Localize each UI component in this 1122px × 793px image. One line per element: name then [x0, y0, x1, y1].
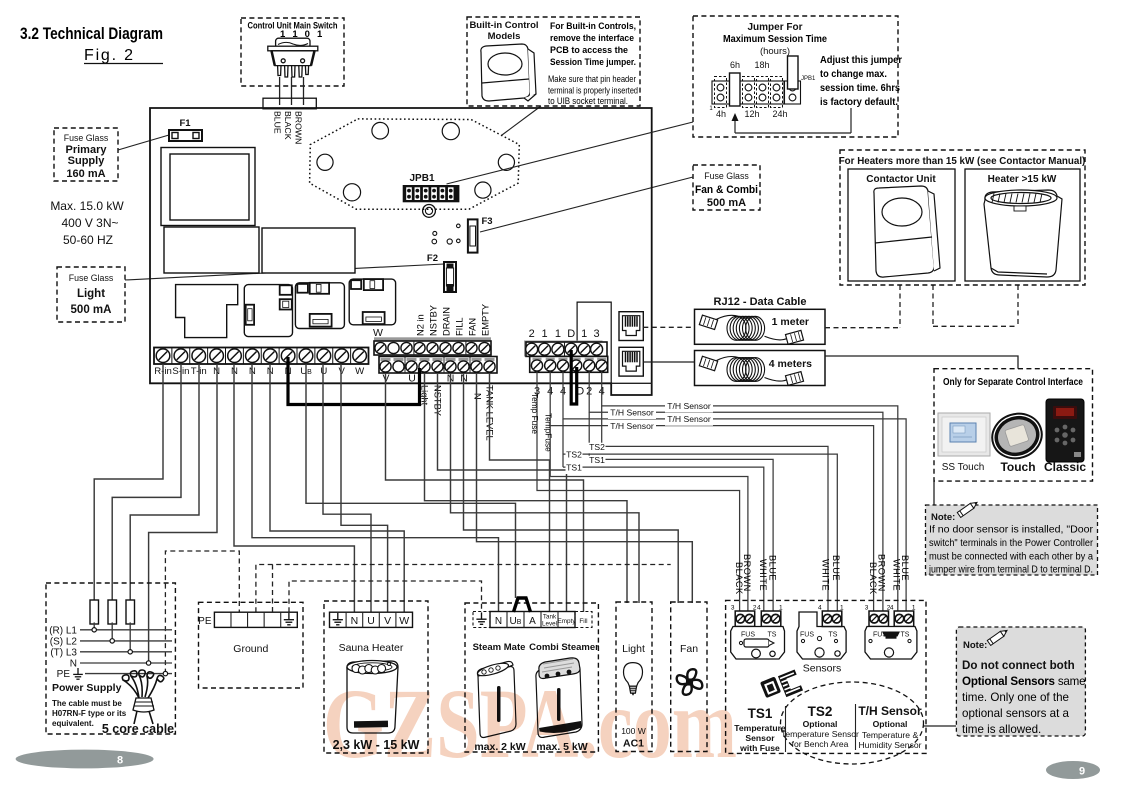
svg-text:F2: F2 — [427, 253, 438, 264]
svg-text:V: V — [384, 615, 391, 627]
svg-text:Temperature &: Temperature & — [862, 730, 919, 740]
svg-text:to UIB socket terminal.: to UIB socket terminal. — [548, 96, 628, 106]
wire X3-2 to TH sensor BROWN — [589, 372, 883, 614]
screw terminal X2-bot-2 — [394, 358, 404, 361]
label T/H Sensor run 3 — [665, 415, 713, 426]
screw terminal X3-bot-2 — [546, 358, 555, 361]
screw terminal X1-7 — [260, 348, 262, 365]
svg-text:Max. 15.0 kW: Max. 15.0 kW — [50, 199, 124, 213]
svg-text:optional sensors at a: optional sensors at a — [962, 707, 1070, 720]
leader line to F1 — [118, 135, 169, 150]
wire switch pin 3 — [303, 77, 305, 98]
TH sensor element — [882, 632, 900, 637]
svg-text:Sensor: Sensor — [745, 733, 775, 743]
svg-text:with Fuse: with Fuse — [739, 743, 780, 753]
svg-text:Models: Models — [488, 31, 521, 42]
svg-text:U: U — [408, 373, 416, 385]
optional sensors grouping ellipse — [781, 682, 924, 764]
svg-text:Session Time jumper.: Session Time jumper. — [550, 57, 636, 67]
wire N to light — [451, 373, 640, 603]
screw terminal X1-11 — [332, 348, 334, 365]
5 core cable drawing — [122, 670, 163, 724]
svg-text:TS1: TS1 — [589, 455, 605, 465]
screw terminal X1-2 — [171, 348, 173, 365]
screw terminal X2-top-1 — [375, 342, 386, 353]
wire switch pin 1 — [279, 77, 281, 98]
svg-text:BROWN: BROWN — [876, 554, 886, 592]
fuse F1 — [169, 130, 202, 141]
thick jumper wire N to U — [288, 357, 420, 405]
leader line to F2 — [125, 264, 444, 280]
page number 9 — [1046, 761, 1100, 779]
screw terminal X3-top-5 — [578, 343, 590, 355]
Heater more than 15kW box — [965, 169, 1080, 281]
svg-text:Heater >15 kW: Heater >15 kW — [988, 174, 1057, 185]
wire UB to steamer UB — [306, 364, 516, 598]
svg-text:Fan: Fan — [680, 643, 698, 655]
svg-text:(R) L1: (R) L1 — [49, 626, 77, 637]
wire PE dashed to ground — [165, 551, 239, 674]
svg-text:PCB to access the: PCB to access the — [550, 45, 628, 55]
wire X3-4 to TH sensor WHITE — [602, 372, 898, 614]
TS2 sensor body — [797, 612, 846, 659]
svg-text:The cable must be: The cable must be — [52, 699, 122, 708]
mains fuse L3 — [126, 600, 135, 624]
Touch control drawing — [986, 407, 1047, 464]
RJ12 jack J1 — [619, 312, 643, 341]
leader line from built-in box to PCB — [502, 106, 541, 135]
screw terminal X2-top-8 — [466, 342, 477, 353]
mounting hole — [343, 184, 360, 201]
sensor terminal pair TH-FUS — [869, 611, 889, 627]
sensor terminal pair TS1-FUS — [735, 611, 755, 627]
capacitor block C1 — [164, 227, 259, 273]
RJ12 jack J2 — [619, 347, 643, 376]
mains fuse L2 — [108, 600, 117, 624]
svg-text:T/H Sensor: T/H Sensor — [667, 414, 711, 424]
dashed PE rail to fan area — [256, 565, 671, 613]
svg-text:BLACK: BLACK — [283, 111, 293, 140]
cable plug right — [785, 372, 803, 386]
switch S1 Control Unit Main Switch box — [241, 18, 344, 86]
wire temp fuse to TS1 BROWN — [550, 477, 748, 614]
Light box — [616, 602, 652, 752]
note box optional sensors — [956, 627, 1085, 736]
dashed drop to ground cell — [272, 565, 274, 613]
svg-text:Do not connect both: Do not connect both — [962, 659, 1075, 672]
label T/H Sensor run 2 — [608, 408, 656, 419]
screw terminal X2-bot-5 — [433, 358, 443, 361]
screw terminal X3-top-4 — [565, 343, 577, 355]
svg-text:50-60 HZ: 50-60 HZ — [63, 233, 113, 247]
wire jack J2 to 4 meters cable — [643, 361, 694, 363]
svg-text:BLUE: BLUE — [831, 555, 841, 581]
svg-text:(S) L2: (S) L2 — [50, 637, 78, 648]
TS1 sensor body — [731, 627, 785, 660]
svg-text:Combi Steamer: Combi Steamer — [529, 642, 599, 653]
screw terminal X2-bot-6 — [446, 358, 456, 361]
terminal strip X2 bottom row — [379, 357, 497, 374]
svg-text:WHITE: WHITE — [892, 559, 902, 591]
wire N to power supply N — [149, 364, 217, 663]
svg-text:Jumper For: Jumper For — [747, 22, 802, 33]
screw terminal X2-bot-4 — [420, 358, 430, 361]
fuse F2 — [444, 262, 456, 292]
svg-text:1: 1 — [912, 605, 916, 612]
svg-text:500 mA: 500 mA — [71, 304, 112, 316]
PCB power controller board outline — [150, 108, 652, 395]
svg-text:DRAIN: DRAIN — [442, 307, 452, 336]
screw terminal X2-bot-9 — [485, 358, 495, 361]
screw terminal X2-top-9 — [479, 342, 490, 353]
node L1 — [92, 628, 96, 632]
svg-text:BLUE: BLUE — [767, 555, 777, 581]
jumper header JPB1 pin block — [712, 81, 801, 104]
screw terminal X1-12 — [350, 348, 352, 365]
svg-text:FILL: FILL — [455, 317, 465, 336]
svg-text:W: W — [373, 327, 383, 339]
svg-text:D: D — [567, 328, 575, 340]
svg-text:F1: F1 — [179, 118, 191, 129]
svg-text:Note:: Note: — [963, 640, 987, 651]
svg-text:160 mA: 160 mA — [66, 168, 105, 180]
svg-text:H07RN-F type or its: H07RN-F type or its — [52, 709, 127, 718]
combi steamer drawing — [536, 658, 582, 738]
pencil icon — [957, 500, 978, 518]
separator line — [785, 706, 787, 752]
wire TS1 sensor WHITE — [563, 467, 764, 613]
svg-text:6h: 6h — [730, 60, 740, 70]
svg-text:T/H Sensor: T/H Sensor — [610, 421, 654, 431]
solder pads near F3 — [433, 231, 437, 235]
screw terminal X1-9 — [296, 348, 298, 365]
svg-text:BLUE: BLUE — [900, 555, 910, 581]
pin header JPB1 on PCB — [403, 185, 460, 202]
relay K3 — [295, 283, 344, 329]
svg-text:F3: F3 — [481, 216, 492, 227]
Fan box — [671, 602, 707, 752]
screw terminal X2-bot-3 — [407, 358, 417, 361]
Steam Mate / Combi Steamer box — [465, 603, 598, 752]
wire N to sauna heater W — [270, 364, 404, 612]
capacitor block C2 — [262, 228, 355, 273]
svg-text:W: W — [399, 615, 409, 627]
svg-text:Touch: Touch — [1000, 460, 1035, 474]
svg-text:1: 1 — [779, 605, 783, 612]
svg-text:FUS: FUS — [741, 632, 755, 639]
screw terminal X2-top-4 — [414, 342, 425, 353]
label T/H Sensor run 4 — [608, 422, 656, 433]
wire 1 meter cable to heater contactor area (dashed) — [825, 327, 900, 329]
Classic control drawing — [1046, 399, 1084, 462]
wire V out to steamer Fill — [386, 373, 584, 612]
jumper shunt 6h (factory default) — [730, 73, 741, 106]
wire S-in to fuse L2 — [112, 364, 181, 600]
Built-in Control Models box — [467, 17, 640, 106]
svg-text:Fig. 2: Fig. 2 — [84, 47, 135, 64]
svg-text:8: 8 — [117, 755, 123, 767]
svg-text:equivalent.: equivalent. — [52, 719, 94, 728]
svg-text:Temperature: Temperature — [734, 723, 786, 733]
sensor terminal pair TS2-TS — [822, 611, 842, 627]
svg-text:3: 3 — [594, 328, 600, 340]
pencil icon 2 — [987, 628, 1008, 646]
relay K4 — [349, 279, 395, 325]
svg-text:TS: TS — [829, 632, 838, 639]
screw terminal X2-top-5 — [427, 342, 438, 353]
svg-text:A: A — [529, 616, 536, 627]
svg-text:Light: Light — [622, 643, 645, 655]
wire TS2 sensor BLUE — [563, 454, 837, 613]
built-in control unit drawing — [481, 44, 536, 101]
svg-text:Sauna Heater: Sauna Heater — [339, 642, 404, 654]
svg-text:Optional Sensors same: Optional Sensors same — [962, 675, 1085, 688]
page number 8 — [16, 750, 154, 769]
rocker switch drawing — [268, 38, 318, 77]
svg-text:Maximum Session Time: Maximum Session Time — [723, 34, 827, 45]
svg-text:1: 1 — [581, 328, 587, 340]
screw terminal X1-6 — [242, 348, 244, 365]
terminal strip X1 mains — [154, 348, 369, 365]
heater greater 15kW drawing — [984, 190, 1062, 277]
svg-text:Contactor Unit: Contactor Unit — [866, 174, 936, 185]
terminal strip X3 bottom row — [530, 356, 608, 372]
svg-text:PE: PE — [198, 616, 212, 627]
screw terminal X1-10 — [314, 348, 316, 365]
svg-text:Temp Fuse: Temp Fuse — [530, 393, 540, 434]
svg-text:FUS: FUS — [800, 632, 814, 639]
svg-text:T/H Sensor: T/H Sensor — [858, 704, 922, 718]
Contactor Unit box — [848, 169, 955, 281]
svg-text:V: V — [339, 366, 346, 377]
label TS1 — [589, 456, 606, 467]
svg-text:Classic: Classic — [1044, 460, 1086, 474]
cable plug left — [699, 356, 717, 370]
terminal strip X2 top row — [374, 337, 491, 342]
svg-text:Only for Separate Control Inte: Only for Separate Control Interface — [943, 377, 1083, 388]
svg-text:1: 1 — [555, 328, 561, 340]
svg-text:Fuse Glass: Fuse Glass — [64, 133, 109, 143]
note box door sensor — [926, 505, 1098, 575]
svg-text:4: 4 — [890, 605, 894, 612]
svg-text:Fuse Glass: Fuse Glass — [69, 273, 114, 283]
screw terminal X3-top-1 — [526, 343, 538, 355]
terminal strip X3 top row — [524, 341, 603, 357]
cable coil — [727, 358, 746, 382]
wire stub X3 — [588, 412, 590, 459]
screw terminal X1-4 — [207, 348, 209, 365]
steamer terminal strip — [490, 612, 575, 628]
svg-text:4: 4 — [757, 605, 761, 612]
svg-text:to change max.: to change max. — [820, 69, 887, 80]
svg-text:T/H Sensor: T/H Sensor — [667, 401, 711, 411]
svg-text:FAN: FAN — [468, 318, 478, 336]
screw terminal X3-bot-3 — [559, 358, 568, 361]
wire N to fan — [464, 373, 679, 603]
Sauna Heater box — [324, 601, 428, 753]
wire U to sauna heater U — [323, 364, 371, 612]
transformer T1 — [161, 148, 255, 226]
screw terminal X2-top-3 — [401, 342, 412, 353]
screw terminal X3-top-3 — [552, 343, 564, 355]
node N — [146, 661, 150, 665]
svg-text:500 mA: 500 mA — [707, 197, 746, 209]
svg-text:3: 3 — [865, 605, 869, 612]
wire X3-4b to TH sensor BLUE — [563, 372, 906, 614]
svg-text:time. Only one of the: time. Only one of the — [962, 691, 1069, 704]
svg-text:remove the interface: remove the interface — [550, 33, 634, 43]
Fuse Glass Fan and Combi box — [693, 165, 760, 210]
svg-text:session time. 6hrs: session time. 6hrs — [820, 83, 900, 94]
svg-text:3.2 Technical Diagram: 3.2 Technical Diagram — [20, 24, 163, 43]
mounting hole — [475, 182, 491, 198]
svg-text:W: W — [355, 366, 365, 377]
mounting hole — [442, 123, 459, 140]
node L2 — [110, 639, 114, 643]
svg-text:9: 9 — [1079, 766, 1085, 778]
separator line 2 — [855, 704, 857, 750]
wire N to sauna heater N — [234, 364, 354, 612]
svg-text:Steam Mate: Steam Mate — [473, 642, 526, 653]
mains fuse L1 — [90, 600, 99, 624]
screw terminal X1-5 — [225, 348, 227, 365]
screw terminal X2-top-2 — [388, 342, 399, 353]
cable plug right — [785, 330, 803, 344]
dashed jumper position markers — [715, 77, 727, 108]
svg-text:BLUE: BLUE — [273, 111, 283, 134]
svg-text:BLACK: BLACK — [868, 562, 878, 595]
Jumper For Maximum Session Time box — [693, 16, 898, 137]
wire N to fan 2 — [477, 373, 693, 603]
svg-text:Sensors: Sensors — [803, 663, 842, 675]
wire N to steam unit N — [252, 364, 499, 612]
svg-text:If no door sensor is inst: If no door sensor is installed, "Door — [929, 525, 1094, 536]
cable plug left — [699, 315, 717, 329]
screw terminal X3-bot-4 — [572, 358, 581, 361]
svg-text:EMPTY: EMPTY — [481, 304, 491, 336]
svg-text:PE: PE — [57, 669, 71, 680]
svg-text:U: U — [320, 366, 327, 377]
svg-text:3: 3 — [731, 605, 735, 612]
fuse F3 — [468, 219, 478, 252]
wire ellipse to note — [924, 725, 957, 727]
screw terminal X3-bot-1 — [533, 358, 542, 361]
svg-text:TS1: TS1 — [566, 463, 582, 473]
screw terminal X3-bot-6 — [597, 358, 606, 361]
RJ12 data cable 4 meters box — [695, 351, 826, 386]
svg-text:BROWN: BROWN — [293, 111, 303, 144]
screw terminal X2-bot-7 — [459, 358, 469, 361]
svg-text:Make sure that pin header: Make sure that pin header — [548, 74, 636, 84]
svg-text:N: N — [473, 393, 483, 400]
screw terminal X2-top-6 — [440, 342, 451, 353]
svg-text:18h: 18h — [754, 60, 769, 70]
wire switch pin 2 — [291, 77, 293, 98]
svg-text:24h: 24h — [772, 109, 787, 119]
interface PCB sub-board outline — [577, 302, 611, 383]
wire TS2 sensor WHITE — [602, 446, 828, 613]
jumper shunt on JPB1 pins — [788, 56, 799, 89]
svg-text:TS2: TS2 — [808, 704, 833, 719]
svg-text:for Bench Area: for Bench Area — [792, 739, 849, 749]
svg-text:TempFuse: TempFuse — [544, 413, 554, 452]
svg-text:U: U — [367, 615, 375, 627]
SS Touch control drawing — [938, 413, 990, 456]
svg-text:4: 4 — [818, 605, 822, 612]
wire X3-4c to TH sensor BLACK — [550, 372, 873, 614]
mounting hole — [372, 122, 389, 139]
heater terminal strip — [330, 612, 413, 627]
leader line JPB1 to jumper box — [447, 122, 694, 184]
svg-text:time is allowed.: time is allowed. — [962, 723, 1041, 736]
screw terminal X3-top-2 — [539, 343, 551, 355]
TH sensor body — [865, 627, 917, 660]
node PE — [163, 671, 167, 675]
svg-text:Empty: Empty — [557, 618, 576, 625]
wire temp fuse to TS1 BLACK — [537, 372, 740, 614]
svg-text:400 V 3N~: 400 V 3N~ — [61, 216, 118, 230]
svg-text:RJ12 - Data Cable: RJ12 - Data Cable — [714, 296, 807, 308]
svg-text:Fan & Combi: Fan & Combi — [695, 184, 758, 196]
svg-text:must be connected with each ot: must be connected with each other by a — [929, 552, 1094, 563]
svg-text:Optional: Optional — [873, 719, 908, 729]
wire TS1 sensor BLUE — [589, 459, 773, 613]
svg-text:TS2: TS2 — [589, 442, 605, 452]
svg-text:Supply: Supply — [68, 155, 106, 167]
label T/H Sensor run 1 — [665, 402, 713, 413]
svg-text:is factory default.: is factory default. — [820, 97, 898, 108]
svg-text:T/H Sensor: T/H Sensor — [610, 408, 654, 418]
svg-text:JPB1: JPB1 — [801, 76, 816, 82]
screw terminal X2-bot-1 — [381, 358, 391, 361]
dashed link contactor box to controller — [932, 285, 934, 326]
svg-text:(T) L3: (T) L3 — [50, 647, 77, 658]
light bulb — [624, 663, 643, 696]
Only for Separate Control Interface box — [934, 369, 1093, 481]
svg-text:Power Supply: Power Supply — [52, 682, 122, 694]
svg-text:For Built-in Controls,: For Built-in Controls, — [550, 21, 636, 31]
svg-text:GZSPA.com: GZSPA.com — [323, 668, 737, 779]
TS1 thermal fuse — [744, 639, 769, 647]
relay K2 — [244, 285, 292, 337]
wire NSTBY to steamer Empty — [438, 373, 567, 612]
svg-text:TS2: TS2 — [566, 450, 582, 460]
RJ12 data cable 1 meter box — [695, 309, 826, 344]
screw terminal X3-bot-5 — [585, 358, 594, 361]
Sensors box — [726, 600, 926, 753]
node L3 — [128, 650, 132, 654]
svg-text:Humidity Sensor: Humidity Sensor — [858, 740, 921, 750]
svg-text:Temperature Sensor: Temperature Sensor — [781, 729, 859, 739]
cable coil — [727, 316, 746, 340]
svg-text:Note:: Note: — [931, 512, 955, 523]
connector bar on PCB edge — [263, 98, 316, 109]
screw terminal X1-3 — [189, 348, 191, 365]
label TS2b — [566, 450, 583, 461]
svg-text:Built-in Control: Built-in Control — [469, 20, 538, 31]
svg-text:TS: TS — [901, 632, 910, 639]
steam mate drawing — [476, 661, 516, 738]
svg-text:Fuse Glass: Fuse Glass — [704, 171, 749, 181]
sensor terminal pair TH-TS — [894, 611, 914, 627]
svg-text:Ground: Ground — [233, 643, 268, 655]
svg-text:TS: TS — [768, 632, 777, 639]
svg-text:1: 1 — [541, 328, 547, 340]
svg-text:NSTBY: NSTBY — [429, 305, 439, 336]
Power Supply box — [46, 583, 175, 734]
wire T-in to fuse L3 — [130, 364, 199, 600]
For Heaters more than 15 kW box — [840, 150, 1085, 285]
